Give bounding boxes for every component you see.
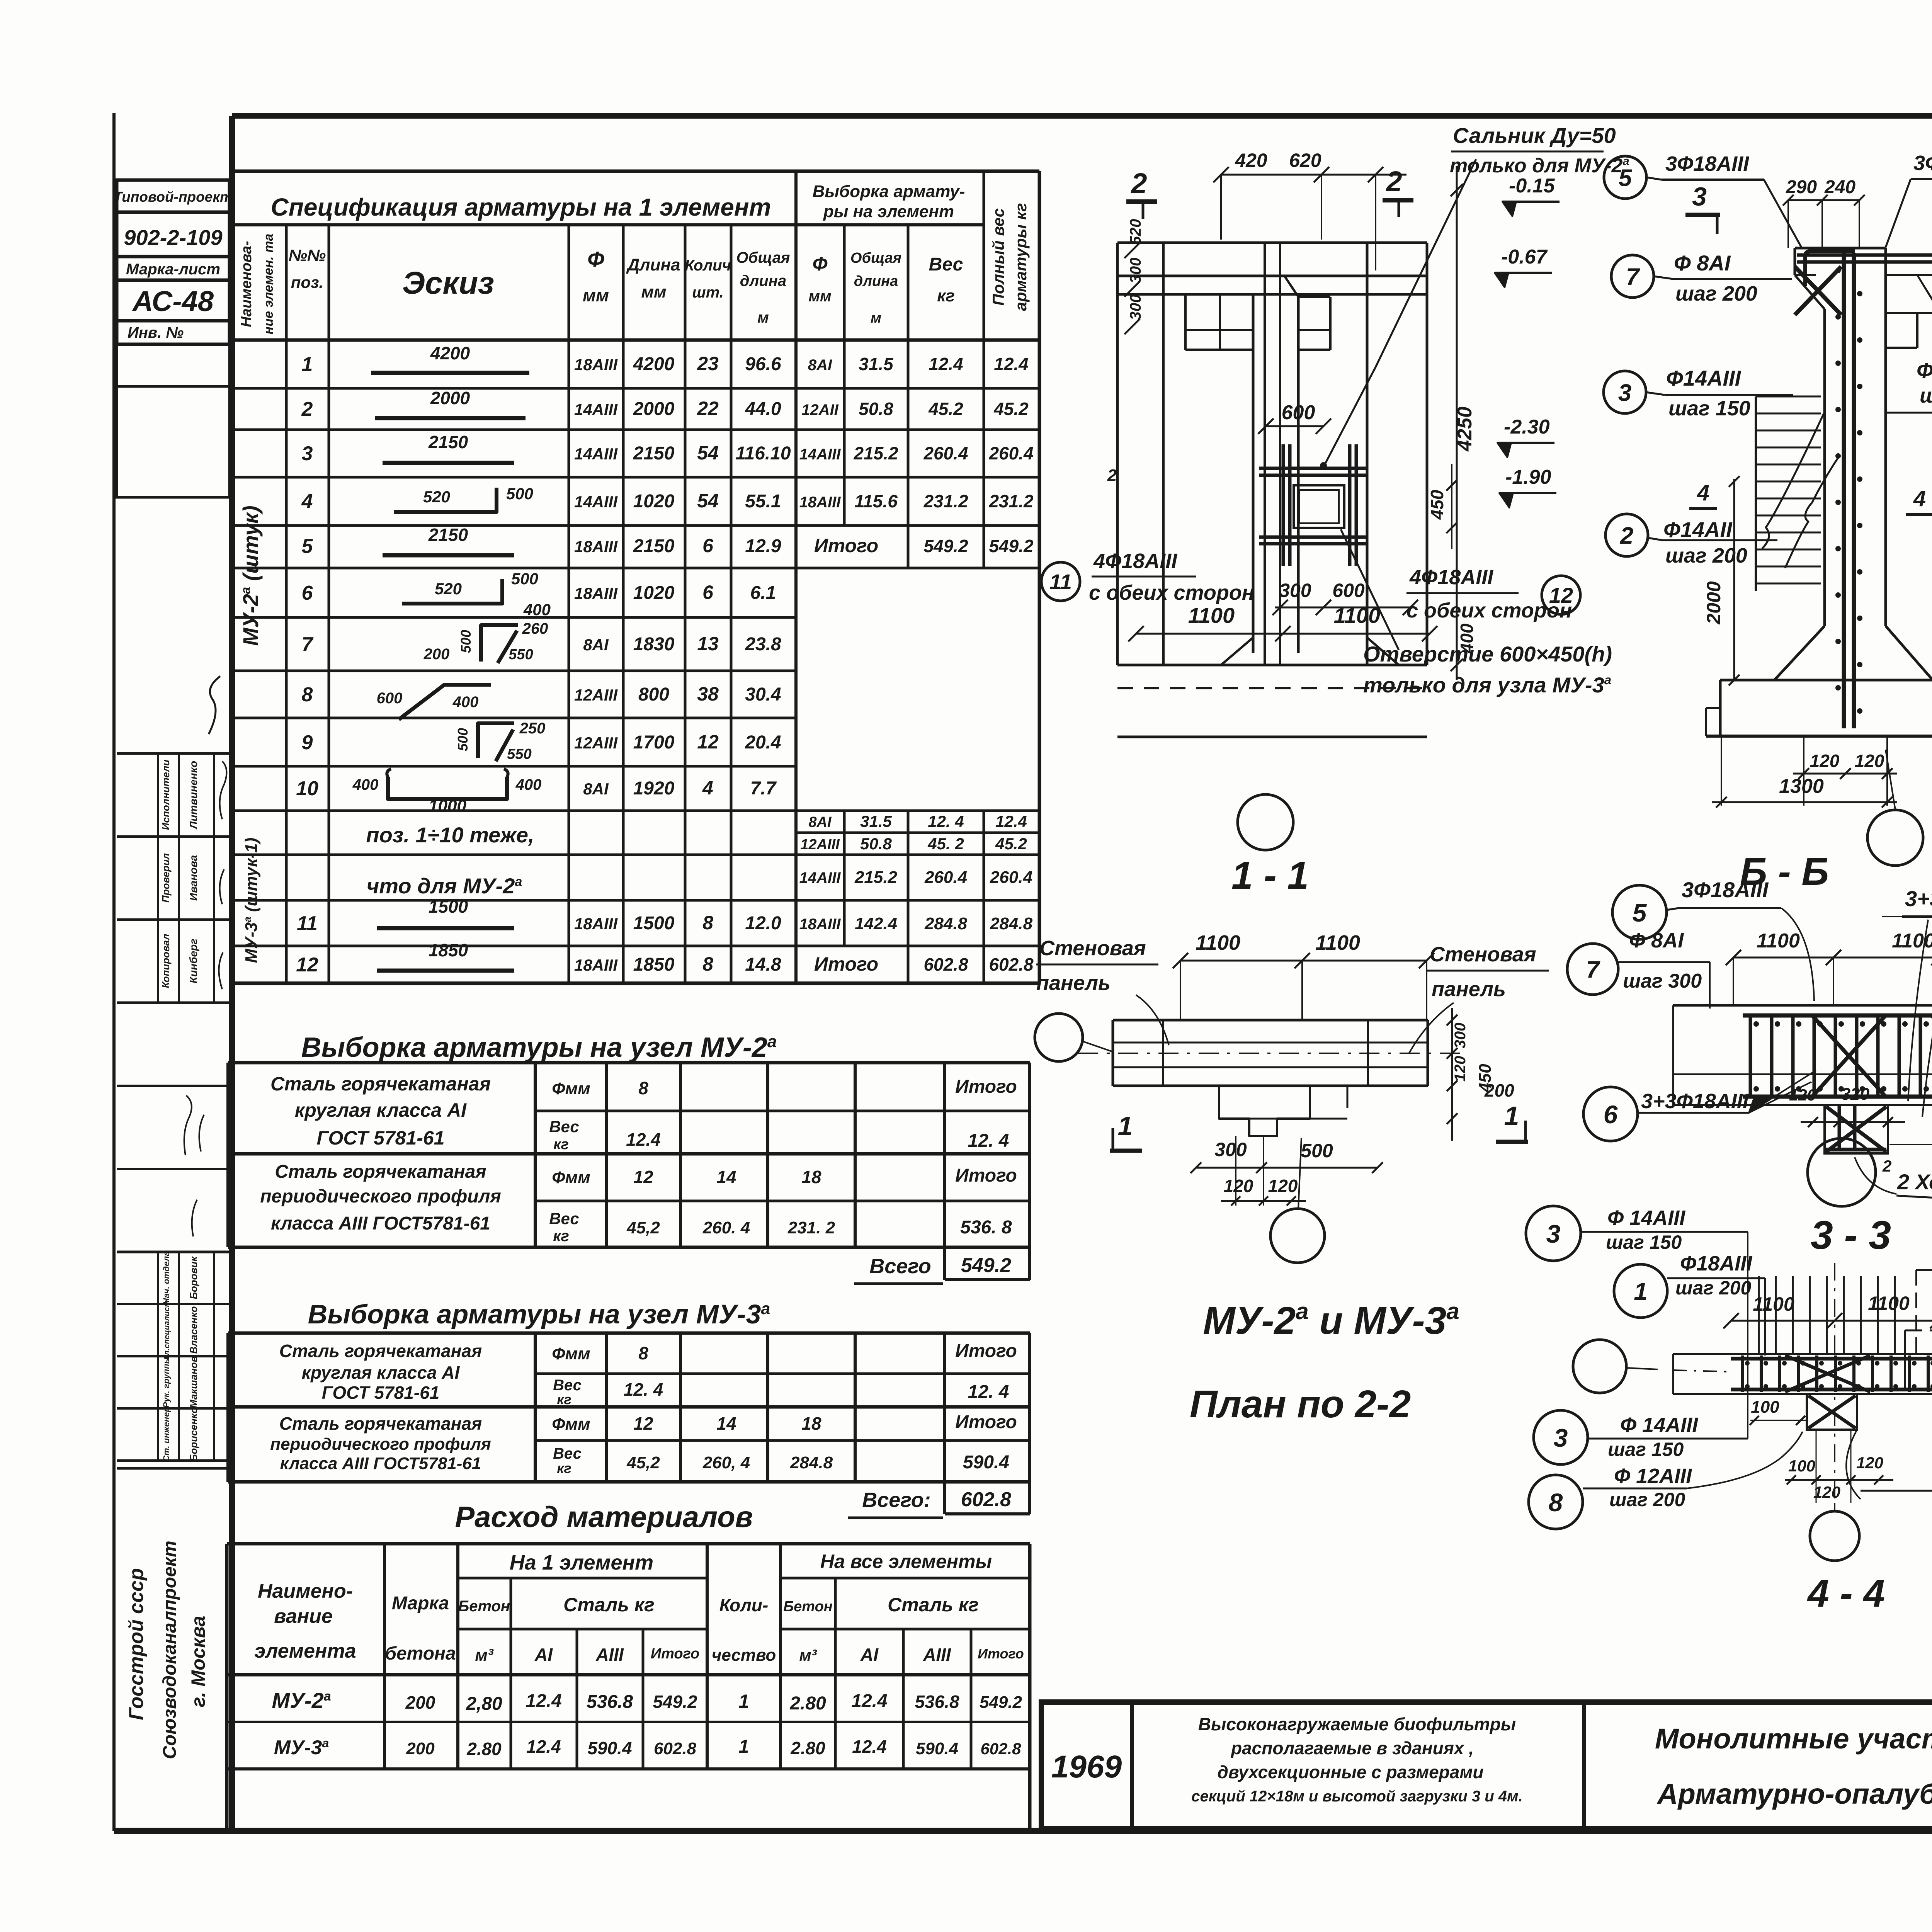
stamp date rows xyxy=(117,1085,230,1087)
svg-text:10: 10 xyxy=(296,777,318,800)
svg-text:12. 4: 12. 4 xyxy=(968,1131,1009,1151)
view 3-3 position circle xyxy=(1808,1138,1876,1206)
svg-text:45.2: 45.2 xyxy=(995,835,1027,853)
view 1-1 dim 1100 1100 xyxy=(1136,633,1430,635)
svg-text:Спецификация арматуры на 1 эле: Спецификация арматуры на 1 элемент xyxy=(271,193,771,221)
view B-B rebar top anchors xyxy=(1797,253,1932,257)
svg-text:шт.: шт. xyxy=(692,284,724,301)
stamp empty box 2 xyxy=(117,386,230,497)
view 3-3 pos 6 label xyxy=(1583,1087,1638,1141)
svg-text:4: 4 xyxy=(702,777,713,799)
view 4-4 left position circle xyxy=(1573,1340,1626,1393)
svg-text:12АIII: 12АIII xyxy=(574,686,618,704)
svg-text:класса АIII ГОСТ5781-61: класса АIII ГОСТ5781-61 xyxy=(280,1454,481,1473)
svg-text:Ф18АIII: Ф18АIII xyxy=(1917,358,1932,383)
view B-B column cap xyxy=(1795,247,1886,250)
svg-text:116.10: 116.10 xyxy=(735,443,791,464)
svg-text:231.2: 231.2 xyxy=(923,491,968,511)
svg-text:кг: кг xyxy=(557,1460,571,1476)
svg-text:шаг 300: шаг 300 xyxy=(1623,970,1702,992)
svg-text:260.4: 260.4 xyxy=(924,868,967,887)
view 4-4 beam band xyxy=(1673,1353,1932,1355)
svg-text:что для МУ-2а: что для МУ-2а xyxy=(367,874,522,898)
svg-text:Ф 12АIII: Ф 12АIII xyxy=(1614,1464,1692,1488)
svg-text:вание: вание xyxy=(274,1605,333,1628)
svg-text:12. 4: 12. 4 xyxy=(624,1379,663,1400)
svg-text:Литвиненко: Литвиненко xyxy=(187,761,199,830)
svg-text:Арматурно-опалубочный чертеж.: Арматурно-опалубочный чертеж. xyxy=(1656,1778,1932,1810)
svg-text:МУ-2а: МУ-2а xyxy=(272,1688,331,1713)
svg-text:бетона: бетона xyxy=(385,1643,456,1664)
svg-text:600: 600 xyxy=(1282,401,1315,424)
svg-text:520: 520 xyxy=(435,580,462,598)
svg-text:12.0: 12.0 xyxy=(745,913,781,934)
svg-text:260. 4: 260. 4 xyxy=(702,1218,750,1237)
view 3-3 beam stirrups xyxy=(1749,1015,1752,1097)
svg-text:54: 54 xyxy=(697,490,719,512)
svg-text:4Ф18АIII: 4Ф18АIII xyxy=(1093,549,1177,573)
svg-text:300: 300 xyxy=(1279,580,1311,601)
svg-text:240: 240 xyxy=(1824,177,1855,197)
view B-B slab stub right xyxy=(1886,274,1932,276)
svg-text:мм: мм xyxy=(808,288,831,305)
svg-text:100: 100 xyxy=(1751,1398,1779,1417)
svg-text:2.80: 2.80 xyxy=(466,1739,502,1759)
svg-text:590.4: 590.4 xyxy=(587,1738,632,1758)
svg-text:Ф18АIII: Ф18АIII xyxy=(1680,1252,1752,1275)
svg-text:Иванова: Иванова xyxy=(187,855,199,901)
svg-text:14: 14 xyxy=(716,1413,736,1434)
view 3-3 console xyxy=(1825,1105,1888,1153)
view 1-1 opening rebar verticals xyxy=(1282,444,1285,566)
svg-text:Сталь кг: Сталь кг xyxy=(888,1594,979,1616)
svg-text:АС-48: АС-48 xyxy=(132,285,214,317)
svg-text:290: 290 xyxy=(1786,177,1817,197)
plan2-2 console teeth xyxy=(1219,1086,1310,1136)
svg-text:520: 520 xyxy=(423,488,450,506)
stamp signature scribble top xyxy=(209,676,220,734)
svg-text:2: 2 xyxy=(1107,466,1117,485)
svg-text:Длина: Длина xyxy=(626,255,680,274)
view 3-3 pos 7 label xyxy=(1567,944,1618,995)
view 4-4 pos 1 label xyxy=(1614,1264,1667,1318)
svg-text:кг: кг xyxy=(553,1228,569,1245)
svg-text:поз.: поз. xyxy=(291,273,323,291)
svg-text:круглая класса АI: круглая класса АI xyxy=(302,1362,460,1383)
svg-text:7: 7 xyxy=(1586,956,1600,983)
svg-text:АI: АI xyxy=(534,1645,553,1665)
svg-text:14АIII: 14АIII xyxy=(574,493,618,511)
view B-B rebar cap X ties xyxy=(1795,267,1841,315)
svg-text:5: 5 xyxy=(1619,165,1633,191)
view B-B rebar verticals xyxy=(1842,253,1846,728)
stamp box Типовой-проект xyxy=(117,180,230,212)
svg-text:Бетон: Бетон xyxy=(783,1599,833,1615)
svg-text:1100: 1100 xyxy=(1188,603,1235,628)
svg-text:142.4: 142.4 xyxy=(855,914,897,933)
svg-text:54: 54 xyxy=(697,442,719,464)
svg-text:284.8: 284.8 xyxy=(990,914,1033,933)
svg-text:14АIII: 14АIII xyxy=(574,400,618,418)
svg-text:-2.30: -2.30 xyxy=(1504,416,1550,438)
vyborka MU-3a Vsego row xyxy=(943,1482,946,1514)
svg-text:12.4: 12.4 xyxy=(526,1736,561,1757)
svg-text:600: 600 xyxy=(1332,580,1365,601)
svg-text:Полный вес: Полный вес xyxy=(989,208,1007,306)
svg-text:3+3Ф12АIII: 3+3Ф12АIII xyxy=(1905,886,1932,911)
svg-text:55.1: 55.1 xyxy=(745,491,781,512)
svg-text:№№: №№ xyxy=(289,246,326,264)
spec table subrow line 12АIII xyxy=(796,832,1039,834)
svg-text:Инв. №: Инв. № xyxy=(128,324,184,341)
svg-text:Союзводоканалпроект: Союзводоканалпроект xyxy=(160,1541,180,1759)
svg-text:45. 2: 45. 2 xyxy=(927,835,964,853)
svg-text:1300: 1300 xyxy=(1779,775,1824,798)
svg-text:18АIII: 18АIII xyxy=(799,916,841,933)
svg-text:5: 5 xyxy=(302,535,313,558)
svg-text:панель: панель xyxy=(1432,978,1506,1001)
svg-text:20.4: 20.4 xyxy=(745,732,781,753)
svg-text:500: 500 xyxy=(1301,1140,1333,1162)
svg-text:8АI: 8АI xyxy=(583,780,609,798)
svg-text:3: 3 xyxy=(1554,1423,1568,1452)
svg-text:панель: панель xyxy=(1036,971,1111,995)
view 1-1 slab boxes xyxy=(1184,294,1187,350)
svg-text:-0.15: -0.15 xyxy=(1509,175,1555,197)
svg-text:602.8: 602.8 xyxy=(923,954,968,975)
svg-text:Итого: Итого xyxy=(955,1412,1017,1432)
svg-text:1100: 1100 xyxy=(1892,930,1932,952)
svg-text:-0.67: -0.67 xyxy=(1501,246,1548,268)
svg-text:поз. 1÷10 теже,: поз. 1÷10 теже, xyxy=(366,823,534,847)
svg-text:590.4: 590.4 xyxy=(963,1452,1009,1473)
svg-text:класса АIII ГОСТ5781-61: класса АIII ГОСТ5781-61 xyxy=(271,1213,490,1234)
svg-text:элемента: элемента xyxy=(254,1640,356,1662)
svg-text:Высоконагружаемые биофильтры: Высоконагружаемые биофильтры xyxy=(1198,1714,1516,1734)
svg-text:ГОСТ 5781-61: ГОСТ 5781-61 xyxy=(316,1127,444,1149)
svg-text:Итого: Итого xyxy=(651,1646,699,1662)
svg-text:Макшанов: Макшанов xyxy=(188,1356,199,1408)
svg-text:45,2: 45,2 xyxy=(626,1453,660,1472)
svg-text:18: 18 xyxy=(801,1167,821,1187)
svg-text:Вес: Вес xyxy=(929,254,963,275)
sketch row1 bar 4200 xyxy=(371,371,529,375)
svg-text:м: м xyxy=(757,309,769,326)
svg-text:периодического профиля: периодического профиля xyxy=(270,1435,491,1454)
svg-text:120: 120 xyxy=(1856,1454,1883,1472)
svg-text:1100: 1100 xyxy=(1757,930,1800,952)
svg-text:Итого: Итого xyxy=(814,953,878,975)
svg-text:1: 1 xyxy=(738,1690,749,1712)
svg-text:260.4: 260.4 xyxy=(923,443,968,463)
svg-text:550: 550 xyxy=(509,646,533,663)
svg-text:590.4: 590.4 xyxy=(916,1739,958,1758)
svg-text:Боровик: Боровик xyxy=(188,1256,199,1299)
raskhod table frame xyxy=(225,1544,229,1828)
svg-text:3+3Ф18АIII: 3+3Ф18АIII xyxy=(1641,1090,1749,1113)
svg-text:44.0: 44.0 xyxy=(745,399,781,419)
view 1-1 wall verticals xyxy=(1116,243,1119,665)
svg-text:Фмм: Фмм xyxy=(552,1079,590,1098)
svg-text:Ст. инженер: Ст. инженер xyxy=(162,1407,171,1462)
svg-text:4: 4 xyxy=(301,490,313,513)
svg-text:300: 300 xyxy=(1127,294,1144,320)
svg-text:Наимено-: Наимено- xyxy=(258,1580,353,1602)
stamp box АС-48 xyxy=(117,280,230,321)
svg-text:Сталь горячекатаная: Сталь горячекатаная xyxy=(279,1413,482,1434)
svg-text:Ф 8АI: Ф 8АI xyxy=(1629,929,1684,952)
svg-text:902-2-109: 902-2-109 xyxy=(124,225,222,250)
svg-text:МУ-2а​ (штук): МУ-2а​ (штук) xyxy=(238,505,263,646)
svg-text:Кинберг: Кинберг xyxy=(187,939,199,983)
svg-text:549.2: 549.2 xyxy=(653,1692,697,1712)
plan2-2 beam band xyxy=(1113,1019,1428,1022)
svg-text:12: 12 xyxy=(296,954,318,976)
view B-B rebar dots xyxy=(1835,268,1841,273)
svg-text:длина: длина xyxy=(740,272,786,289)
svg-text:Итого: Итого xyxy=(978,1646,1024,1662)
svg-text:14: 14 xyxy=(716,1167,736,1187)
svg-text:АIII: АIII xyxy=(923,1645,951,1665)
svg-text:14АIII: 14АIII xyxy=(799,446,841,463)
view 1-1 leader dot xyxy=(1320,462,1327,469)
svg-text:2 Хомута Ф8АI: 2 Хомута Ф8АI xyxy=(1897,1170,1932,1194)
svg-text:Ф 14АIII: Ф 14АIII xyxy=(1620,1413,1698,1437)
svg-text:800: 800 xyxy=(638,684,669,705)
svg-text:14АIII: 14АIII xyxy=(799,869,841,886)
svg-text:12. 4: 12. 4 xyxy=(968,1382,1009,1402)
svg-text:На 1 элемент: На 1 элемент xyxy=(510,1551,653,1574)
svg-text:м³: м³ xyxy=(475,1646,494,1665)
svg-text:Итого: Итого xyxy=(955,1077,1017,1097)
stamp signature scribbles mid xyxy=(220,761,227,819)
view 1-1 pos 11 label xyxy=(1041,562,1080,601)
svg-text:12.4: 12.4 xyxy=(929,354,963,374)
svg-text:3: 3 xyxy=(1546,1219,1561,1248)
svg-text:3Ф18АIII: 3Ф18АIII xyxy=(1913,151,1932,175)
svg-text:100: 100 xyxy=(1788,1457,1815,1475)
svg-text:кг: кг xyxy=(557,1391,571,1407)
svg-text:549.2: 549.2 xyxy=(923,536,968,556)
view B-B stair treads xyxy=(1755,396,1757,591)
svg-text:14.8: 14.8 xyxy=(745,954,781,975)
svg-text:6.1: 6.1 xyxy=(750,583,776,603)
svg-text:Итого: Итого xyxy=(814,535,878,556)
svg-text:550: 550 xyxy=(507,746,531,762)
svg-text:96.6: 96.6 xyxy=(745,354,781,374)
view 1-1 leader Сальник xyxy=(1325,159,1476,465)
svg-text:120: 120 xyxy=(1268,1176,1298,1196)
svg-text:8: 8 xyxy=(702,912,713,934)
svg-text:Борисенко: Борисенко xyxy=(188,1407,199,1461)
svg-text:18АIII: 18АIII xyxy=(574,584,618,602)
svg-text:2000: 2000 xyxy=(1703,581,1725,624)
svg-text:2: 2 xyxy=(301,398,313,420)
svg-text:длина: длина xyxy=(854,273,898,289)
svg-text:1020: 1020 xyxy=(633,491,675,512)
view 1-1 right dim chain xyxy=(1456,166,1458,680)
spec table frame xyxy=(230,171,234,983)
view B-B pos 5 left xyxy=(1604,156,1646,199)
svg-text:14АIII: 14АIII xyxy=(574,445,618,463)
svg-text:Наименова-: Наименова- xyxy=(238,241,255,327)
svg-text:23.8: 23.8 xyxy=(745,634,781,655)
svg-text:4: 4 xyxy=(1697,480,1709,505)
view 4-4 console xyxy=(1807,1394,1857,1430)
svg-text:549.2: 549.2 xyxy=(989,536,1034,556)
svg-text:18АIII: 18АIII xyxy=(574,537,618,556)
svg-text:только для узла МУ-3а​: только для узла МУ-3а​ xyxy=(1363,673,1611,697)
svg-text:шаг 200: шаг 200 xyxy=(1609,1489,1685,1510)
stamp column outer line xyxy=(112,113,116,1831)
svg-text:12: 12 xyxy=(697,731,719,753)
svg-text:шаг 150: шаг 150 xyxy=(1668,397,1750,420)
svg-text:23: 23 xyxy=(697,353,719,374)
view 1-1 top slab xyxy=(1117,241,1427,244)
svg-text:200: 200 xyxy=(1484,1080,1514,1100)
view 3-3 beam X braces xyxy=(1812,1015,1886,1097)
svg-text:8: 8 xyxy=(1549,1488,1563,1517)
svg-text:Коли-: Коли- xyxy=(719,1595,769,1615)
svg-text:Бетон: Бетон xyxy=(458,1598,510,1615)
svg-text:400: 400 xyxy=(352,776,379,793)
svg-text:1969: 1969 xyxy=(1051,1749,1122,1784)
svg-text:231. 2: 231. 2 xyxy=(787,1218,835,1237)
svg-text:МУ-2а​ и МУ-3а​: МУ-2а​ и МУ-3а​ xyxy=(1203,1298,1459,1342)
svg-text:Выборка арматуры на узел МУ-: Выборка арматуры на узел МУ-2а xyxy=(301,1032,777,1063)
view 4-4 beam rebar xyxy=(1731,1357,1932,1361)
sketch row4 bent bar 520x500 xyxy=(394,488,497,512)
svg-text:с обеих сторон: с обеих сторон xyxy=(1089,581,1254,604)
svg-text:3Ф18АIII: 3Ф18АIII xyxy=(1665,152,1749,175)
svg-text:1100: 1100 xyxy=(1334,603,1380,628)
view 4-4 position circle xyxy=(1810,1511,1859,1561)
svg-text:215.2: 215.2 xyxy=(853,443,898,463)
title block frame xyxy=(1041,1702,1932,1829)
vyborka MU-2a table frame xyxy=(226,1063,230,1247)
svg-text:120: 120 xyxy=(1452,1056,1469,1082)
svg-text:Выборка арматуры на узел М: Выборка арматуры на узел МУ-3а xyxy=(308,1299,770,1329)
svg-text:Нач. отдела: Нач. отдела xyxy=(162,1251,171,1304)
svg-text:мм: мм xyxy=(583,285,609,305)
svg-text:1500: 1500 xyxy=(633,913,675,934)
svg-text:располагаемые в зданиях ,: располагаемые в зданиях , xyxy=(1230,1738,1474,1758)
svg-text:500: 500 xyxy=(506,485,533,503)
svg-text:Сталь горячекатаная: Сталь горячекатаная xyxy=(279,1341,482,1361)
svg-text:2000: 2000 xyxy=(633,399,675,419)
svg-text:Ф14АII: Ф14АII xyxy=(1663,517,1733,542)
view 1-1 wall base flares xyxy=(1221,638,1253,665)
stamp box Инв № xyxy=(117,321,230,344)
plan2-2 right dims rotated xyxy=(1451,1008,1453,1141)
stamp empty box 1 xyxy=(117,344,230,386)
svg-text:18АIII: 18АIII xyxy=(574,355,618,374)
svg-text:Вес: Вес xyxy=(549,1117,579,1136)
svg-text:Итого: Итого xyxy=(955,1165,1017,1186)
svg-text:1: 1 xyxy=(1504,1101,1519,1131)
view 4-4 pos 8 label xyxy=(1529,1475,1583,1529)
svg-text:536. 8: 536. 8 xyxy=(960,1217,1012,1238)
svg-text:4Ф18АIII: 4Ф18АIII xyxy=(1409,566,1493,589)
svg-text:549.2: 549.2 xyxy=(961,1254,1011,1277)
svg-text:Госстрой ссср: Госстрой ссср xyxy=(125,1568,148,1720)
svg-text:2.80: 2.80 xyxy=(789,1693,826,1714)
svg-text:Типовой-проект: Типовой-проект xyxy=(114,189,233,205)
svg-text:549.2: 549.2 xyxy=(980,1693,1022,1712)
svg-text:11: 11 xyxy=(297,912,318,935)
svg-text:602.8: 602.8 xyxy=(961,1488,1011,1511)
svg-text:400: 400 xyxy=(523,600,551,619)
svg-text:120: 120 xyxy=(1810,751,1840,771)
svg-text:6: 6 xyxy=(302,582,313,604)
svg-text:600: 600 xyxy=(377,690,403,707)
svg-text:115.6: 115.6 xyxy=(854,491,898,511)
svg-text:260, 4: 260, 4 xyxy=(702,1453,750,1472)
svg-text:45.2: 45.2 xyxy=(928,399,963,419)
svg-text:400: 400 xyxy=(452,694,479,711)
view B-B column shaft xyxy=(1823,309,1826,626)
svg-text:8АI: 8АI xyxy=(583,636,609,654)
svg-text:Сталь горячекатаная: Сталь горячекатаная xyxy=(275,1162,486,1182)
svg-text:1: 1 xyxy=(1118,1111,1133,1141)
svg-text:320: 320 xyxy=(1841,1085,1870,1104)
svg-text:1850: 1850 xyxy=(429,940,468,960)
svg-text:12АIII: 12АIII xyxy=(800,837,840,853)
svg-text:Общая: Общая xyxy=(736,249,790,266)
stamp box Марка-лист xyxy=(117,257,230,280)
svg-text:Выборка армату-: Выборка армату- xyxy=(813,182,965,201)
svg-text:8: 8 xyxy=(702,953,713,975)
svg-text:602.8: 602.8 xyxy=(980,1740,1021,1758)
svg-text:4 - 4: 4 - 4 xyxy=(1807,1572,1885,1615)
svg-text:12.4: 12.4 xyxy=(626,1129,661,1150)
svg-text:1020: 1020 xyxy=(633,583,675,603)
svg-text:2.80: 2.80 xyxy=(790,1738,825,1758)
svg-text:50.8: 50.8 xyxy=(860,835,892,853)
svg-text:38: 38 xyxy=(697,683,719,705)
svg-text:536.8: 536.8 xyxy=(587,1692,633,1712)
view 4-4 rebar dots xyxy=(1745,1361,1750,1366)
svg-text:только для МУ-2а​: только для МУ-2а​ xyxy=(1450,154,1629,177)
svg-text:250: 250 xyxy=(519,720,546,737)
view 1-1 bottom position circle xyxy=(1238,794,1293,850)
stamp approval rows block xyxy=(117,1303,230,1305)
svg-text:1000: 1000 xyxy=(429,796,466,815)
svg-text:МУ-3а: МУ-3а xyxy=(274,1736,329,1759)
sketch row7 stirrup hook 500 260 550 200 xyxy=(481,625,518,662)
sketch row11 bar 1500 xyxy=(377,926,514,930)
view 4-4 pos 3 upper-left xyxy=(1526,1206,1581,1261)
svg-text:12: 12 xyxy=(633,1413,653,1434)
svg-text:2150: 2150 xyxy=(428,525,468,545)
svg-text:круглая класса АI: круглая класса АI xyxy=(295,1099,467,1121)
svg-text:8: 8 xyxy=(302,684,313,706)
svg-text:30.4: 30.4 xyxy=(745,684,781,705)
stamp signatures block rows xyxy=(117,752,230,755)
view 3-3 beam rebar horizontals xyxy=(1743,1014,1932,1018)
svg-text:12АII: 12АII xyxy=(801,401,838,418)
svg-text:18АIII: 18АIII xyxy=(799,494,841,511)
vyborka MU-2a Vsego row xyxy=(943,1247,946,1280)
svg-text:Ф 14АIII: Ф 14АIII xyxy=(1607,1206,1685,1230)
svg-text:Эскиз: Эскиз xyxy=(402,265,494,301)
vyborka MU-3a table frame xyxy=(226,1333,230,1482)
view 1-1 opening rebar horizontals xyxy=(1259,467,1368,470)
svg-text:кг: кг xyxy=(553,1136,569,1153)
svg-text:Марка-лист: Марка-лист xyxy=(126,261,220,278)
svg-text:1700: 1700 xyxy=(633,732,675,753)
svg-text:1 - 1: 1 - 1 xyxy=(1231,854,1309,897)
